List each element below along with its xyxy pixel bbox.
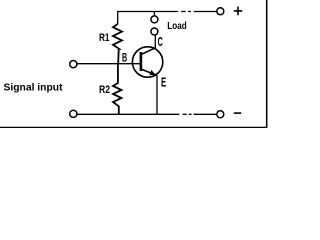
transistor Q1 collector diagonal <box>142 48 156 55</box>
svg-text:Load: Load <box>167 21 187 32</box>
svg-text:R2: R2 <box>99 84 110 96</box>
wire base rail from signal terminal to transistor base bar <box>77 63 140 65</box>
resistor R2 <box>113 64 122 115</box>
wire top rail right segment to plus terminal <box>194 11 217 13</box>
wire bottom rail from signal terminal to first dash gap <box>77 113 179 115</box>
svg-text:R1: R1 <box>99 32 110 44</box>
svg-text:E: E <box>161 76 166 90</box>
wire stub top rail to upper load terminal <box>153 12 155 17</box>
terminal signal lower circle <box>70 110 77 117</box>
wire top rail from R1 corner to first dash gap <box>118 12 179 25</box>
transistor Q1 emitter arrowhead <box>149 70 155 75</box>
wire bottom rail dash 2 <box>189 113 192 115</box>
page border right <box>266 0 268 128</box>
transistor Q1 circle <box>132 47 162 77</box>
svg-text:B: B <box>122 51 127 65</box>
wire top rail dash 2 <box>188 11 191 13</box>
resistor R1 <box>113 24 122 64</box>
terminal signal upper circle <box>70 61 77 68</box>
terminal + circle <box>217 8 224 15</box>
label - <box>234 112 241 114</box>
terminal - circle <box>217 111 224 118</box>
wire bottom rail dash 1 <box>183 113 187 115</box>
page border bottom <box>0 126 267 128</box>
wire emitter vertical <box>156 76 158 115</box>
transistor Q1 base bar <box>140 52 143 71</box>
load terminal upper circle <box>151 16 158 23</box>
wire collector stub <box>154 35 156 48</box>
wire bottom rail right segment to minus terminal <box>194 113 217 115</box>
label + <box>234 7 243 16</box>
load terminal lower circle <box>151 28 158 35</box>
svg-text:C: C <box>158 35 163 49</box>
wire top rail dash 1 <box>181 11 185 13</box>
svg-text:Signal input: Signal input <box>4 82 64 93</box>
transistor Q1 emitter diagonal <box>142 69 158 75</box>
